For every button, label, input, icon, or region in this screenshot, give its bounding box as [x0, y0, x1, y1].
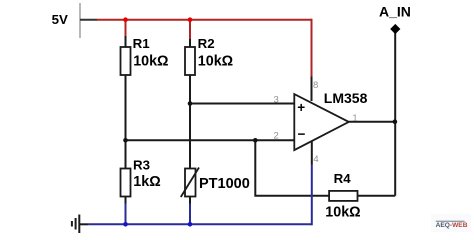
svg-text:1: 1 — [352, 113, 357, 124]
svg-text:R4: R4 — [334, 171, 352, 186]
svg-text:8: 8 — [313, 80, 318, 91]
svg-text:10kΩ: 10kΩ — [133, 54, 168, 70]
svg-text:A_IN: A_IN — [379, 3, 411, 19]
svg-text:10kΩ: 10kΩ — [198, 54, 233, 70]
svg-text:AEQ-WEB: AEQ-WEB — [436, 222, 468, 229]
svg-text:10kΩ: 10kΩ — [325, 205, 360, 221]
svg-text:LM358: LM358 — [324, 90, 368, 106]
svg-text:R1: R1 — [133, 36, 151, 51]
svg-text:R2: R2 — [198, 36, 215, 51]
svg-text:R3: R3 — [133, 157, 150, 172]
svg-text:2: 2 — [274, 131, 279, 142]
svg-text:5V: 5V — [52, 12, 68, 27]
svg-text:−: − — [298, 127, 306, 142]
svg-text:1kΩ: 1kΩ — [133, 174, 160, 190]
svg-text:PT1000: PT1000 — [199, 176, 250, 192]
svg-text:4: 4 — [313, 154, 318, 165]
svg-text:3: 3 — [274, 95, 279, 106]
svg-text:+: + — [297, 100, 305, 115]
